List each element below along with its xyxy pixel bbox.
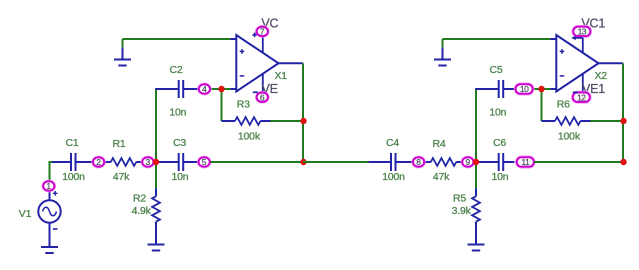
op-amp X1 bbox=[236, 35, 278, 92]
svg-text:4: 4 bbox=[202, 84, 207, 94]
wire R3 left lead bbox=[222, 120, 236, 122]
resistor R6 bbox=[555, 117, 580, 125]
node 4 bbox=[198, 83, 211, 95]
wire output stub stage 2 bbox=[599, 62, 624, 64]
wire +input stub stage 1 bbox=[230, 38, 236, 40]
svg-text:10: 10 bbox=[520, 84, 529, 94]
wire node 3 to C3 bbox=[154, 161, 176, 163]
wire R5 top lead bbox=[475, 188, 477, 196]
svg-text:47k: 47k bbox=[433, 171, 450, 183]
svg-text:10n: 10n bbox=[489, 107, 506, 119]
wire output drop stage 2 bbox=[622, 63, 624, 162]
wire feedback drop stage 1 bbox=[221, 89, 223, 121]
wire output X1 to C4 bbox=[303, 161, 369, 163]
node 2 bbox=[92, 156, 105, 168]
power plus mark VC bbox=[252, 33, 256, 38]
svg-text:10n: 10n bbox=[172, 171, 189, 183]
source V1 bbox=[38, 200, 60, 222]
op-amp X2 V+ pin bbox=[582, 37, 584, 53]
svg-text:C6: C6 bbox=[493, 137, 506, 149]
wire ground to +input stage 1 bbox=[123, 38, 231, 40]
svg-text:11: 11 bbox=[521, 157, 530, 167]
wire feedback to output stage 2 bbox=[591, 120, 624, 122]
source V1 minus mark bbox=[53, 228, 58, 230]
capacitor C1 bbox=[52, 153, 93, 171]
wire -input stub stage 2 bbox=[550, 88, 556, 90]
resistor R3 bbox=[235, 117, 260, 125]
svg-text:8: 8 bbox=[416, 157, 421, 167]
capacitor C6 bbox=[497, 153, 515, 171]
wire +input stub stage 2 bbox=[550, 38, 556, 40]
svg-text:2: 2 bbox=[96, 157, 101, 167]
svg-text:100n: 100n bbox=[382, 171, 405, 183]
op-amp X1 minus input marker bbox=[240, 75, 245, 77]
wire node 2 to R1 bbox=[105, 161, 111, 163]
svg-text:3: 3 bbox=[145, 157, 150, 167]
node 13 bbox=[572, 26, 591, 38]
wire node 4 to -input bbox=[211, 88, 231, 90]
svg-text:10n: 10n bbox=[492, 171, 509, 183]
wire corner to C2 bbox=[155, 88, 176, 90]
capacitor C4 bbox=[369, 153, 413, 171]
op-amp X2 plus input marker bbox=[560, 49, 565, 54]
node 6 bbox=[256, 91, 269, 103]
capacitor C2 bbox=[177, 80, 199, 98]
svg-text:X2: X2 bbox=[595, 70, 608, 82]
wire R to node 9 bbox=[456, 161, 461, 163]
wire R to node 3 bbox=[136, 161, 141, 163]
junction output-main junction stage 1 bbox=[300, 159, 306, 165]
op-amp X1 plus input marker bbox=[240, 49, 245, 54]
node 7 bbox=[256, 26, 269, 38]
svg-text:R2: R2 bbox=[133, 193, 146, 205]
wire R3 right lead bbox=[260, 120, 270, 122]
ground below R5 bbox=[468, 245, 485, 251]
svg-text:1: 1 bbox=[46, 181, 51, 191]
wire node 8 to R4 bbox=[425, 161, 431, 163]
ground below V1 bbox=[41, 247, 58, 253]
op-amp X2 minus input marker bbox=[560, 75, 565, 77]
wire node 11 to X2 output bbox=[534, 161, 623, 163]
junction inverting junction stage 1 bbox=[218, 86, 224, 92]
wire corner to C5 bbox=[475, 88, 496, 90]
op-amp X2 bbox=[556, 35, 598, 92]
svg-text:100k: 100k bbox=[558, 131, 581, 143]
wire output stub stage 1 bbox=[279, 62, 304, 64]
svg-text:C1: C1 bbox=[65, 137, 78, 149]
svg-text:3.9k: 3.9k bbox=[452, 205, 472, 217]
junction main junction stage 1 bbox=[153, 159, 159, 165]
junction inverting junction stage 2 bbox=[538, 86, 544, 92]
svg-text:12: 12 bbox=[577, 92, 586, 102]
capacitor C3 bbox=[177, 153, 198, 171]
svg-text:C5: C5 bbox=[489, 64, 502, 76]
svg-text:R4: R4 bbox=[432, 138, 445, 150]
ground noninverting input stage 1 bbox=[114, 47, 131, 65]
wire -input stub stage 1 bbox=[230, 88, 236, 90]
svg-text:C2: C2 bbox=[169, 64, 182, 76]
power plus mark VC1 bbox=[576, 37, 583, 39]
resistor R5 bbox=[472, 196, 480, 221]
svg-text:R3: R3 bbox=[237, 99, 250, 111]
capacitor C5 bbox=[497, 80, 515, 98]
svg-text:X1: X1 bbox=[275, 70, 288, 82]
op-amp X1 V- pin bbox=[262, 74, 264, 92]
svg-text:R5: R5 bbox=[453, 193, 466, 205]
svg-text:6: 6 bbox=[260, 92, 265, 102]
node 3 bbox=[141, 156, 154, 168]
junction output-main junction stage 2 bbox=[620, 159, 626, 165]
svg-text:V1: V1 bbox=[19, 208, 32, 220]
svg-text:7: 7 bbox=[260, 27, 265, 37]
ground noninverting input stage 2 bbox=[434, 47, 451, 65]
wire feedback to output stage 1 bbox=[271, 120, 304, 122]
svg-text:10n: 10n bbox=[169, 107, 186, 119]
svg-text:C4: C4 bbox=[386, 137, 399, 149]
wire vertical branch stage 1 bbox=[155, 89, 157, 188]
svg-text:9: 9 bbox=[465, 157, 470, 167]
svg-text:R6: R6 bbox=[557, 99, 570, 111]
svg-text:R1: R1 bbox=[112, 138, 125, 150]
svg-text:100k: 100k bbox=[238, 131, 261, 143]
svg-text:5: 5 bbox=[202, 157, 207, 167]
svg-text:4.9k: 4.9k bbox=[132, 205, 152, 217]
wire R5 bottom lead bbox=[475, 222, 477, 245]
power minus mark VE1 bbox=[573, 91, 578, 93]
wire feedback drop stage 2 bbox=[541, 89, 543, 121]
junction main junction stage 2 bbox=[473, 159, 479, 165]
node 8 bbox=[412, 156, 425, 168]
wire node 10 to -input bbox=[534, 88, 551, 90]
resistor R1 bbox=[111, 158, 136, 166]
wire V1 top lead bbox=[49, 186, 51, 201]
power minus mark VE bbox=[253, 91, 258, 93]
source V1 plus mark bbox=[53, 191, 58, 196]
svg-text:47k: 47k bbox=[113, 171, 130, 183]
wire node 9 to C6 bbox=[474, 161, 496, 163]
svg-text:100n: 100n bbox=[62, 171, 85, 183]
svg-text:C3: C3 bbox=[173, 137, 186, 149]
node 11 bbox=[516, 156, 535, 168]
resistor R2 bbox=[152, 196, 160, 221]
node 12 bbox=[572, 91, 591, 103]
resistor R4 bbox=[431, 158, 456, 166]
wire ground stem stage 2 bbox=[442, 39, 444, 47]
wire V1 bottom lead bbox=[49, 222, 51, 247]
wire R2 top lead bbox=[155, 188, 157, 196]
wire node 5 to X1 output bbox=[211, 161, 304, 163]
node 9 bbox=[461, 156, 474, 168]
wire node 1 to corner bbox=[50, 162, 53, 186]
node 10 bbox=[514, 83, 533, 95]
junction feedback-output junction stage 1 bbox=[300, 118, 306, 124]
op-amp X1 V+ pin bbox=[262, 37, 264, 53]
wire ground to +input stage 2 bbox=[443, 38, 551, 40]
wire output drop stage 1 bbox=[302, 63, 304, 162]
svg-text:13: 13 bbox=[578, 27, 587, 37]
wire R6 left lead bbox=[542, 120, 556, 122]
op-amp X2 V- pin bbox=[582, 74, 584, 92]
wire vertical branch stage 2 bbox=[475, 89, 477, 188]
wire ground stem stage 1 bbox=[122, 39, 124, 47]
node 5 bbox=[197, 156, 210, 168]
node 1 bbox=[42, 180, 55, 192]
wire R6 right lead bbox=[580, 120, 590, 122]
wire R2 bottom lead bbox=[155, 222, 157, 245]
junction feedback-output junction stage 2 bbox=[620, 118, 626, 124]
ground below R2 bbox=[148, 245, 165, 251]
